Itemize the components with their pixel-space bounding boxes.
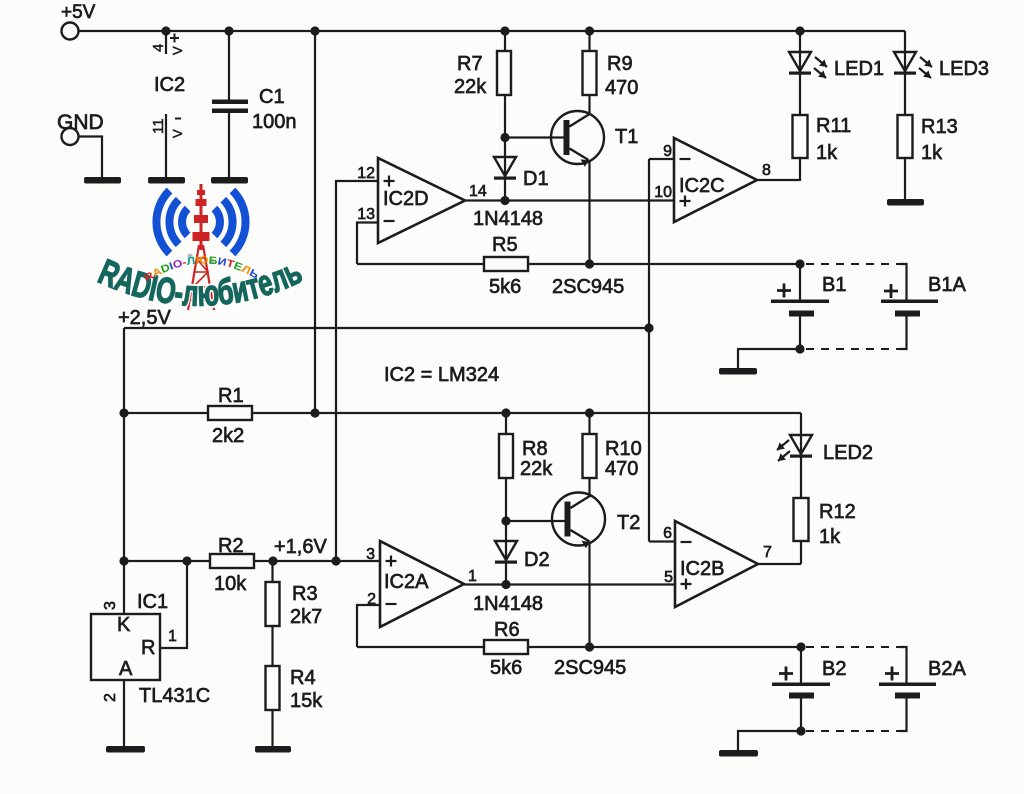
svg-text:IC2B: IC2B: [680, 558, 724, 580]
svg-text:LED1: LED1: [834, 58, 884, 80]
svg-text:LED2: LED2: [823, 442, 873, 464]
svg-text:T1: T1: [615, 126, 638, 148]
svg-text:12: 12: [357, 165, 375, 182]
svg-text:2k7: 2k7: [290, 606, 322, 628]
svg-text:R2: R2: [218, 535, 244, 557]
svg-text:5k6: 5k6: [490, 657, 522, 679]
svg-text:IC2 = LM324: IC2 = LM324: [384, 364, 499, 386]
svg-text:2k2: 2k2: [212, 425, 244, 447]
svg-text:R: R: [141, 637, 155, 659]
svg-text:B2A: B2A: [928, 658, 966, 680]
svg-text:10: 10: [654, 184, 672, 201]
svg-text:IC1: IC1: [137, 591, 168, 613]
svg-text:1: 1: [468, 568, 477, 585]
svg-text:B2: B2: [822, 658, 846, 680]
svg-text:+1,6V: +1,6V: [274, 536, 327, 558]
svg-text:IC2A: IC2A: [384, 571, 429, 593]
svg-text:5: 5: [664, 569, 673, 586]
svg-text:10k: 10k: [214, 573, 247, 595]
svg-text:15k: 15k: [290, 690, 323, 712]
svg-text:1: 1: [168, 628, 177, 645]
svg-text:D2: D2: [524, 549, 550, 571]
svg-text:GND: GND: [57, 111, 104, 134]
svg-text:IC2C: IC2C: [679, 175, 725, 197]
svg-text:8: 8: [762, 162, 771, 179]
svg-text:7: 7: [763, 544, 772, 561]
svg-text:5k6: 5k6: [489, 276, 521, 298]
svg-text:2: 2: [367, 591, 376, 608]
svg-text:14: 14: [469, 183, 487, 200]
svg-text:22k: 22k: [454, 76, 487, 98]
svg-text:D1: D1: [523, 168, 549, 190]
svg-text:A: A: [119, 658, 133, 680]
svg-text:T2: T2: [617, 512, 640, 534]
svg-text:R8: R8: [522, 438, 548, 460]
svg-text:1N4148: 1N4148: [473, 593, 543, 615]
svg-text:1k: 1k: [819, 526, 841, 548]
svg-text:470: 470: [605, 77, 638, 99]
svg-text:V: V: [170, 129, 185, 138]
svg-text:R3: R3: [292, 583, 318, 605]
svg-text:R7: R7: [457, 53, 483, 75]
svg-text:R11: R11: [816, 115, 851, 137]
svg-text:100n: 100n: [252, 111, 297, 133]
svg-text:R4: R4: [290, 667, 316, 689]
svg-text:+2,5V: +2,5V: [118, 307, 171, 329]
svg-text:1k: 1k: [921, 142, 943, 164]
svg-text:4: 4: [150, 44, 167, 52]
svg-text:1N4148: 1N4148: [473, 208, 543, 230]
svg-text:C1: C1: [259, 86, 285, 108]
svg-text:R10: R10: [605, 438, 642, 460]
svg-text:R6: R6: [494, 619, 520, 641]
svg-text:11: 11: [150, 118, 167, 134]
svg-text:22k: 22k: [520, 458, 553, 480]
svg-text:TL431C: TL431C: [139, 685, 210, 707]
svg-text:B1A: B1A: [928, 274, 966, 296]
svg-text:V: V: [170, 46, 185, 55]
svg-text:6: 6: [663, 525, 672, 542]
svg-text:13: 13: [357, 206, 375, 223]
svg-text:3: 3: [366, 546, 375, 563]
svg-text:2SC945: 2SC945: [554, 657, 626, 679]
svg-text:IC2: IC2: [154, 74, 185, 96]
svg-text:R5: R5: [492, 234, 518, 256]
svg-text:1k: 1k: [816, 142, 838, 164]
svg-text:470: 470: [605, 458, 638, 480]
svg-text:B1: B1: [822, 274, 846, 296]
svg-text:K: K: [117, 614, 131, 636]
svg-text:R12: R12: [819, 501, 856, 523]
svg-text:2: 2: [102, 693, 119, 702]
svg-text:R9: R9: [607, 53, 633, 75]
svg-text:R13: R13: [921, 116, 958, 138]
svg-text:R1: R1: [218, 385, 244, 407]
svg-text:9: 9: [663, 143, 672, 160]
svg-text:LED3: LED3: [939, 58, 989, 80]
svg-text:3: 3: [102, 601, 119, 610]
svg-text:+5V: +5V: [61, 2, 96, 23]
svg-text:2SC945: 2SC945: [552, 276, 624, 298]
svg-text:IC2D: IC2D: [383, 188, 429, 210]
